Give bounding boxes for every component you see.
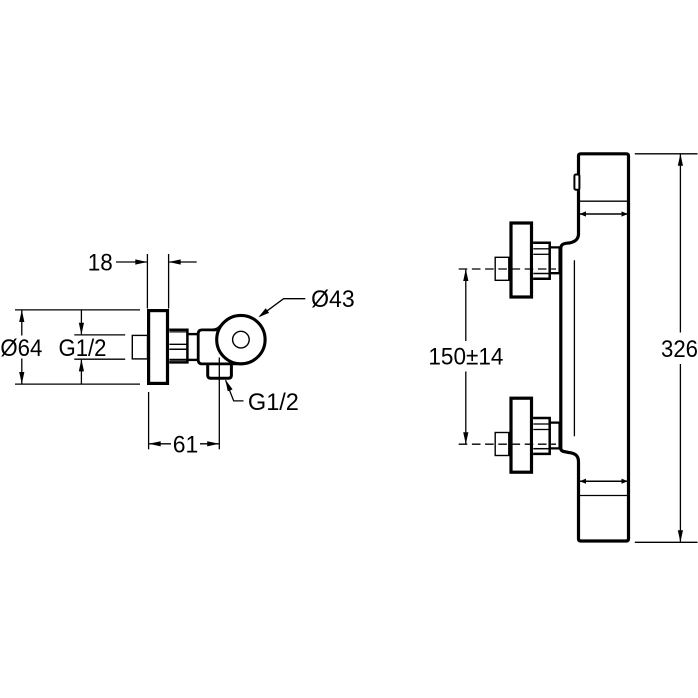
svg-text:18: 18 <box>88 250 113 277</box>
svg-text:G1/2: G1/2 <box>248 389 299 416</box>
svg-text:Ø43: Ø43 <box>311 286 355 313</box>
svg-text:Ø64: Ø64 <box>0 335 42 362</box>
svg-text:150±14: 150±14 <box>428 344 503 371</box>
svg-text:G1/2: G1/2 <box>59 335 107 362</box>
svg-text:326: 326 <box>661 336 698 363</box>
svg-text:61: 61 <box>173 432 199 459</box>
